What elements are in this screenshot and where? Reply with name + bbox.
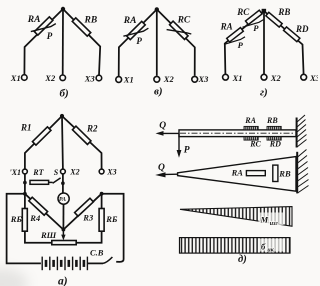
svg-text:R4: R4 <box>29 213 40 223</box>
switch S blade <box>53 178 61 183</box>
terminal X1 v <box>116 77 122 83</box>
arrow P through RC g <box>243 20 264 28</box>
svg-text:R3: R3 <box>82 213 94 223</box>
terminal X2 a <box>61 169 66 174</box>
resistor RB-right vertical <box>76 194 101 243</box>
svg-text:X1: X1 <box>10 73 21 83</box>
wire node to X1 g <box>225 11 264 74</box>
wire left outer loop <box>7 194 41 264</box>
wire node to X2 v <box>156 9 158 75</box>
svg-text:X3: X3 <box>84 73 96 83</box>
svg-text:ик: ик <box>267 247 274 253</box>
junction below X1 <box>23 181 27 185</box>
wire R4 diagonal <box>25 194 64 230</box>
resistor R2 <box>72 126 90 144</box>
wall middle <box>297 150 308 194</box>
node top a <box>60 114 64 118</box>
bending moment diagram Mizg <box>180 207 292 227</box>
wire node to X3 v <box>157 9 195 75</box>
svg-text:X3: X3 <box>309 73 318 83</box>
terminal X2 v <box>154 76 160 82</box>
terminal X2 g <box>261 74 267 80</box>
svg-text:P: P <box>184 145 190 155</box>
arrow P through RA g <box>224 37 245 45</box>
svg-text:X2: X2 <box>44 73 56 83</box>
node top b <box>61 7 65 11</box>
resistor RD g <box>284 27 300 42</box>
svg-text:Q: Q <box>159 121 166 131</box>
svg-text:RC: RC <box>236 7 250 17</box>
svg-text:RB: RB <box>84 15 98 25</box>
stress diagram <box>180 238 291 254</box>
wire RT to switch <box>49 181 53 183</box>
strain gauge RA top <box>244 126 258 129</box>
terminal X3 a <box>99 169 104 174</box>
wire node to X1 v <box>119 9 157 76</box>
svg-text:RD: RD <box>269 139 281 148</box>
wire node to X2 g <box>263 11 265 74</box>
node top g <box>262 9 267 14</box>
svg-text:M: M <box>260 215 269 225</box>
resistor RA v <box>127 21 145 39</box>
wire R3 diagonal <box>63 194 101 230</box>
wire right outer loop <box>102 194 124 262</box>
svg-text:RT: RT <box>32 168 44 177</box>
force Q arrow top <box>159 132 179 134</box>
svg-text:R1: R1 <box>20 123 32 133</box>
node top v <box>155 7 159 11</box>
svg-text:RA: RA <box>220 21 233 31</box>
terminal X3 v <box>192 76 198 82</box>
svg-text:РА: РА <box>59 197 66 203</box>
wire node to X2 <box>62 9 64 75</box>
junction left a <box>23 192 27 196</box>
svg-text:RШ: RШ <box>40 230 57 240</box>
svg-text:RB: RB <box>278 168 291 178</box>
strain gauge RA middle <box>246 171 265 176</box>
resistor R3 <box>75 198 94 216</box>
galvanometer PA <box>58 193 69 204</box>
arrow P through RA v <box>123 28 148 36</box>
force P arrow <box>178 133 180 154</box>
svg-text:P: P <box>238 40 244 50</box>
svg-text:X2: X2 <box>69 168 79 177</box>
wire node to X3 <box>63 9 100 75</box>
resistor R4 <box>29 197 48 215</box>
label sigma <box>258 239 285 252</box>
svg-text:RБ: RБ <box>10 214 23 224</box>
wire node to X1 a <box>25 116 62 169</box>
wire battery to switch <box>87 262 103 264</box>
svg-text:RA: RA <box>244 116 256 125</box>
svg-text:RБ: RБ <box>105 214 118 224</box>
svg-text:'X1: 'X1 <box>10 168 22 177</box>
svg-text:RA: RA <box>123 16 137 26</box>
wire X1 stem <box>24 174 26 194</box>
svg-text:X3: X3 <box>106 168 116 177</box>
strain gauge RB top <box>267 126 281 129</box>
wire node to X3 g <box>264 11 304 74</box>
terminal X1 g <box>223 74 229 80</box>
svg-text:а): а) <box>58 276 68 286</box>
resistor R1 <box>32 127 50 145</box>
svg-text:X3: X3 <box>198 74 210 84</box>
svg-text:изг: изг <box>270 221 279 227</box>
wire node to X1 <box>24 9 63 75</box>
strain gauge RD bottom <box>267 137 281 140</box>
cantilever beam <box>179 130 296 137</box>
svg-text:в): в) <box>154 86 163 98</box>
svg-text:RB: RB <box>266 116 278 125</box>
svg-text:RC: RC <box>249 139 261 148</box>
resistor RA <box>34 17 52 35</box>
force Q arrow middle <box>160 173 177 175</box>
junction right a <box>100 192 104 196</box>
svg-text:б): б) <box>60 88 69 100</box>
wire X2 stem <box>62 174 64 193</box>
beam axis line <box>180 132 295 134</box>
resistor RT <box>30 180 49 184</box>
svg-text:RA: RA <box>231 168 244 178</box>
resistor RB g <box>266 12 282 27</box>
strain gauge RC bottom <box>244 137 258 140</box>
junction on X2 line <box>61 181 65 185</box>
resistor RC g <box>245 10 262 24</box>
svg-text:RC: RC <box>177 15 191 25</box>
resistor RA g <box>227 28 244 42</box>
svg-text:д): д) <box>238 254 247 265</box>
svg-text:RA: RA <box>27 15 41 25</box>
tapered beam <box>178 157 296 192</box>
resistor RB <box>72 18 90 36</box>
svg-text:С.В: С.В <box>90 248 104 258</box>
arrow P through RA <box>31 24 56 32</box>
strike through RC v <box>167 30 192 34</box>
svg-text:X2: X2 <box>163 74 175 84</box>
svg-text:S: S <box>54 168 59 177</box>
battery GB <box>42 257 87 271</box>
svg-text:X1: X1 <box>232 73 243 83</box>
svg-text:RB: RB <box>277 7 290 17</box>
wire node to X2 a <box>61 116 64 169</box>
wire PA to bottom junction <box>62 204 64 229</box>
svg-text:P: P <box>253 23 259 33</box>
svg-text:P: P <box>47 31 53 41</box>
svg-text:RD: RD <box>295 24 309 34</box>
svg-text:X2: X2 <box>270 73 282 83</box>
wall top <box>297 115 307 148</box>
terminal X3 g <box>301 74 307 80</box>
strain gauge RB middle <box>273 165 278 181</box>
wire node to X3 a <box>62 116 102 169</box>
svg-text:P: P <box>136 36 142 46</box>
switch CB blade <box>103 257 112 263</box>
resistor RB-left vertical <box>25 194 52 243</box>
wiper arrow to RSh <box>62 230 64 237</box>
resistor RC v <box>170 21 188 39</box>
terminal X1 <box>22 75 28 81</box>
svg-text:R2: R2 <box>86 123 98 133</box>
terminal X1 a <box>23 169 28 174</box>
terminal X3 <box>96 75 102 81</box>
label Mizg <box>259 213 284 226</box>
svg-text:Q: Q <box>158 163 165 173</box>
svg-text:г): г) <box>260 87 268 99</box>
resistor RSh <box>52 241 76 245</box>
svg-text:X1: X1 <box>123 75 134 85</box>
bottom junction a <box>62 228 66 232</box>
terminal X2 <box>60 75 66 81</box>
